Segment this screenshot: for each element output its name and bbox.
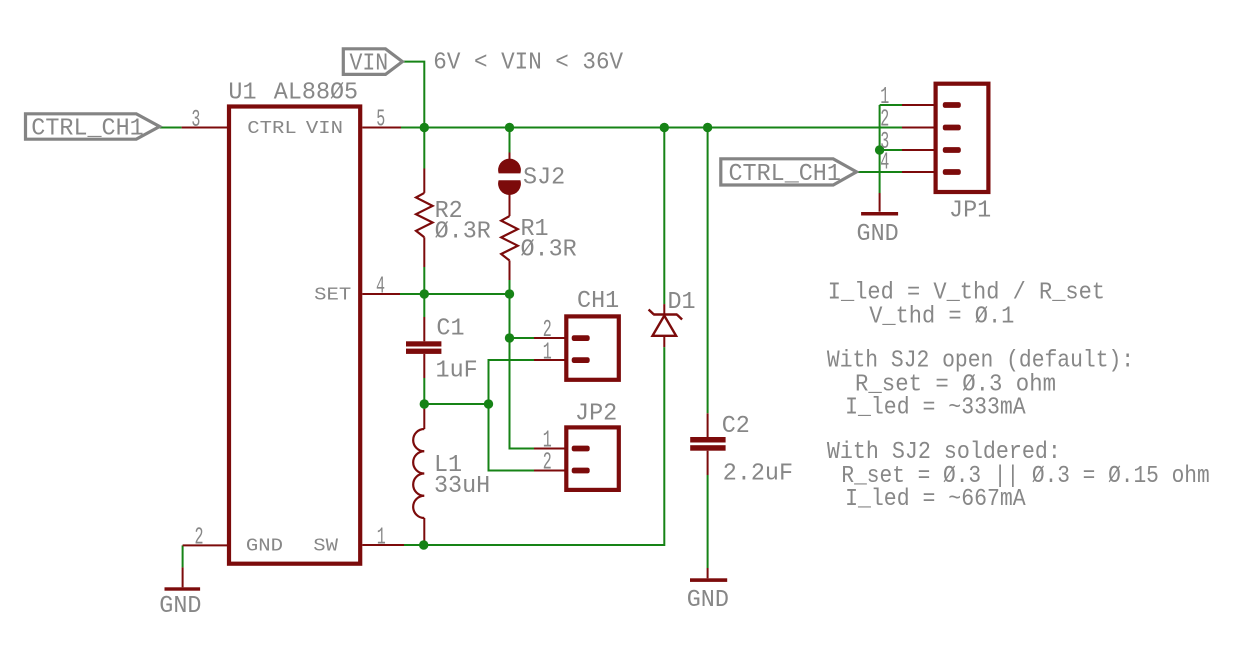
- svg-text:VIN: VIN: [350, 51, 389, 78]
- svg-text:5: 5: [376, 107, 385, 134]
- svg-text:CTRL: CTRL: [247, 119, 296, 139]
- svg-text:1: 1: [543, 339, 552, 366]
- svg-text:CH1: CH1: [577, 288, 619, 315]
- svg-text:GND: GND: [687, 587, 729, 614]
- svg-text:C1: C1: [436, 316, 464, 343]
- svg-text:6V < VIN < 36V: 6V < VIN < 36V: [433, 50, 623, 77]
- svg-text:2.2uF: 2.2uF: [723, 461, 793, 488]
- svg-text:I_led = ~333mA: I_led = ~333mA: [845, 394, 1026, 421]
- svg-text:1uF: 1uF: [436, 358, 478, 385]
- svg-text:2: 2: [543, 450, 552, 477]
- svg-text:C2: C2: [722, 413, 750, 440]
- svg-text:JP1: JP1: [949, 198, 991, 225]
- svg-text:1: 1: [377, 524, 386, 551]
- svg-text:2: 2: [195, 524, 204, 551]
- svg-text:GND: GND: [857, 221, 899, 248]
- svg-text:VIN: VIN: [306, 119, 343, 139]
- svg-text:GND: GND: [246, 537, 283, 557]
- svg-text:CTRL_CH1: CTRL_CH1: [729, 161, 841, 188]
- svg-text:I_led = ~667mA: I_led = ~667mA: [845, 486, 1026, 513]
- svg-text:33uH: 33uH: [434, 473, 490, 500]
- svg-text:Ø.3R: Ø.3R: [435, 219, 491, 246]
- svg-text:4: 4: [880, 150, 889, 177]
- svg-text:D1: D1: [668, 289, 696, 316]
- svg-text:AL88Ø5: AL88Ø5: [274, 80, 358, 107]
- svg-text:V_thd = Ø.1: V_thd = Ø.1: [869, 304, 1014, 331]
- svg-text:SJ2: SJ2: [523, 165, 565, 192]
- svg-text:3: 3: [191, 107, 200, 134]
- svg-text:GND: GND: [159, 593, 201, 620]
- svg-text:JP2: JP2: [575, 401, 617, 428]
- svg-text:CTRL_CH1: CTRL_CH1: [31, 115, 143, 142]
- svg-text:I_led = V_thd / R_set: I_led = V_thd / R_set: [828, 280, 1105, 307]
- svg-text:With SJ2 open (default):: With SJ2 open (default):: [827, 347, 1134, 374]
- svg-text:4: 4: [376, 274, 385, 301]
- svg-text:Ø.3R: Ø.3R: [521, 237, 577, 264]
- svg-text:U1: U1: [228, 80, 256, 107]
- svg-text:With SJ2 soldered:: With SJ2 soldered:: [827, 439, 1061, 466]
- svg-text:SW: SW: [313, 537, 338, 557]
- svg-text:SET: SET: [314, 285, 351, 305]
